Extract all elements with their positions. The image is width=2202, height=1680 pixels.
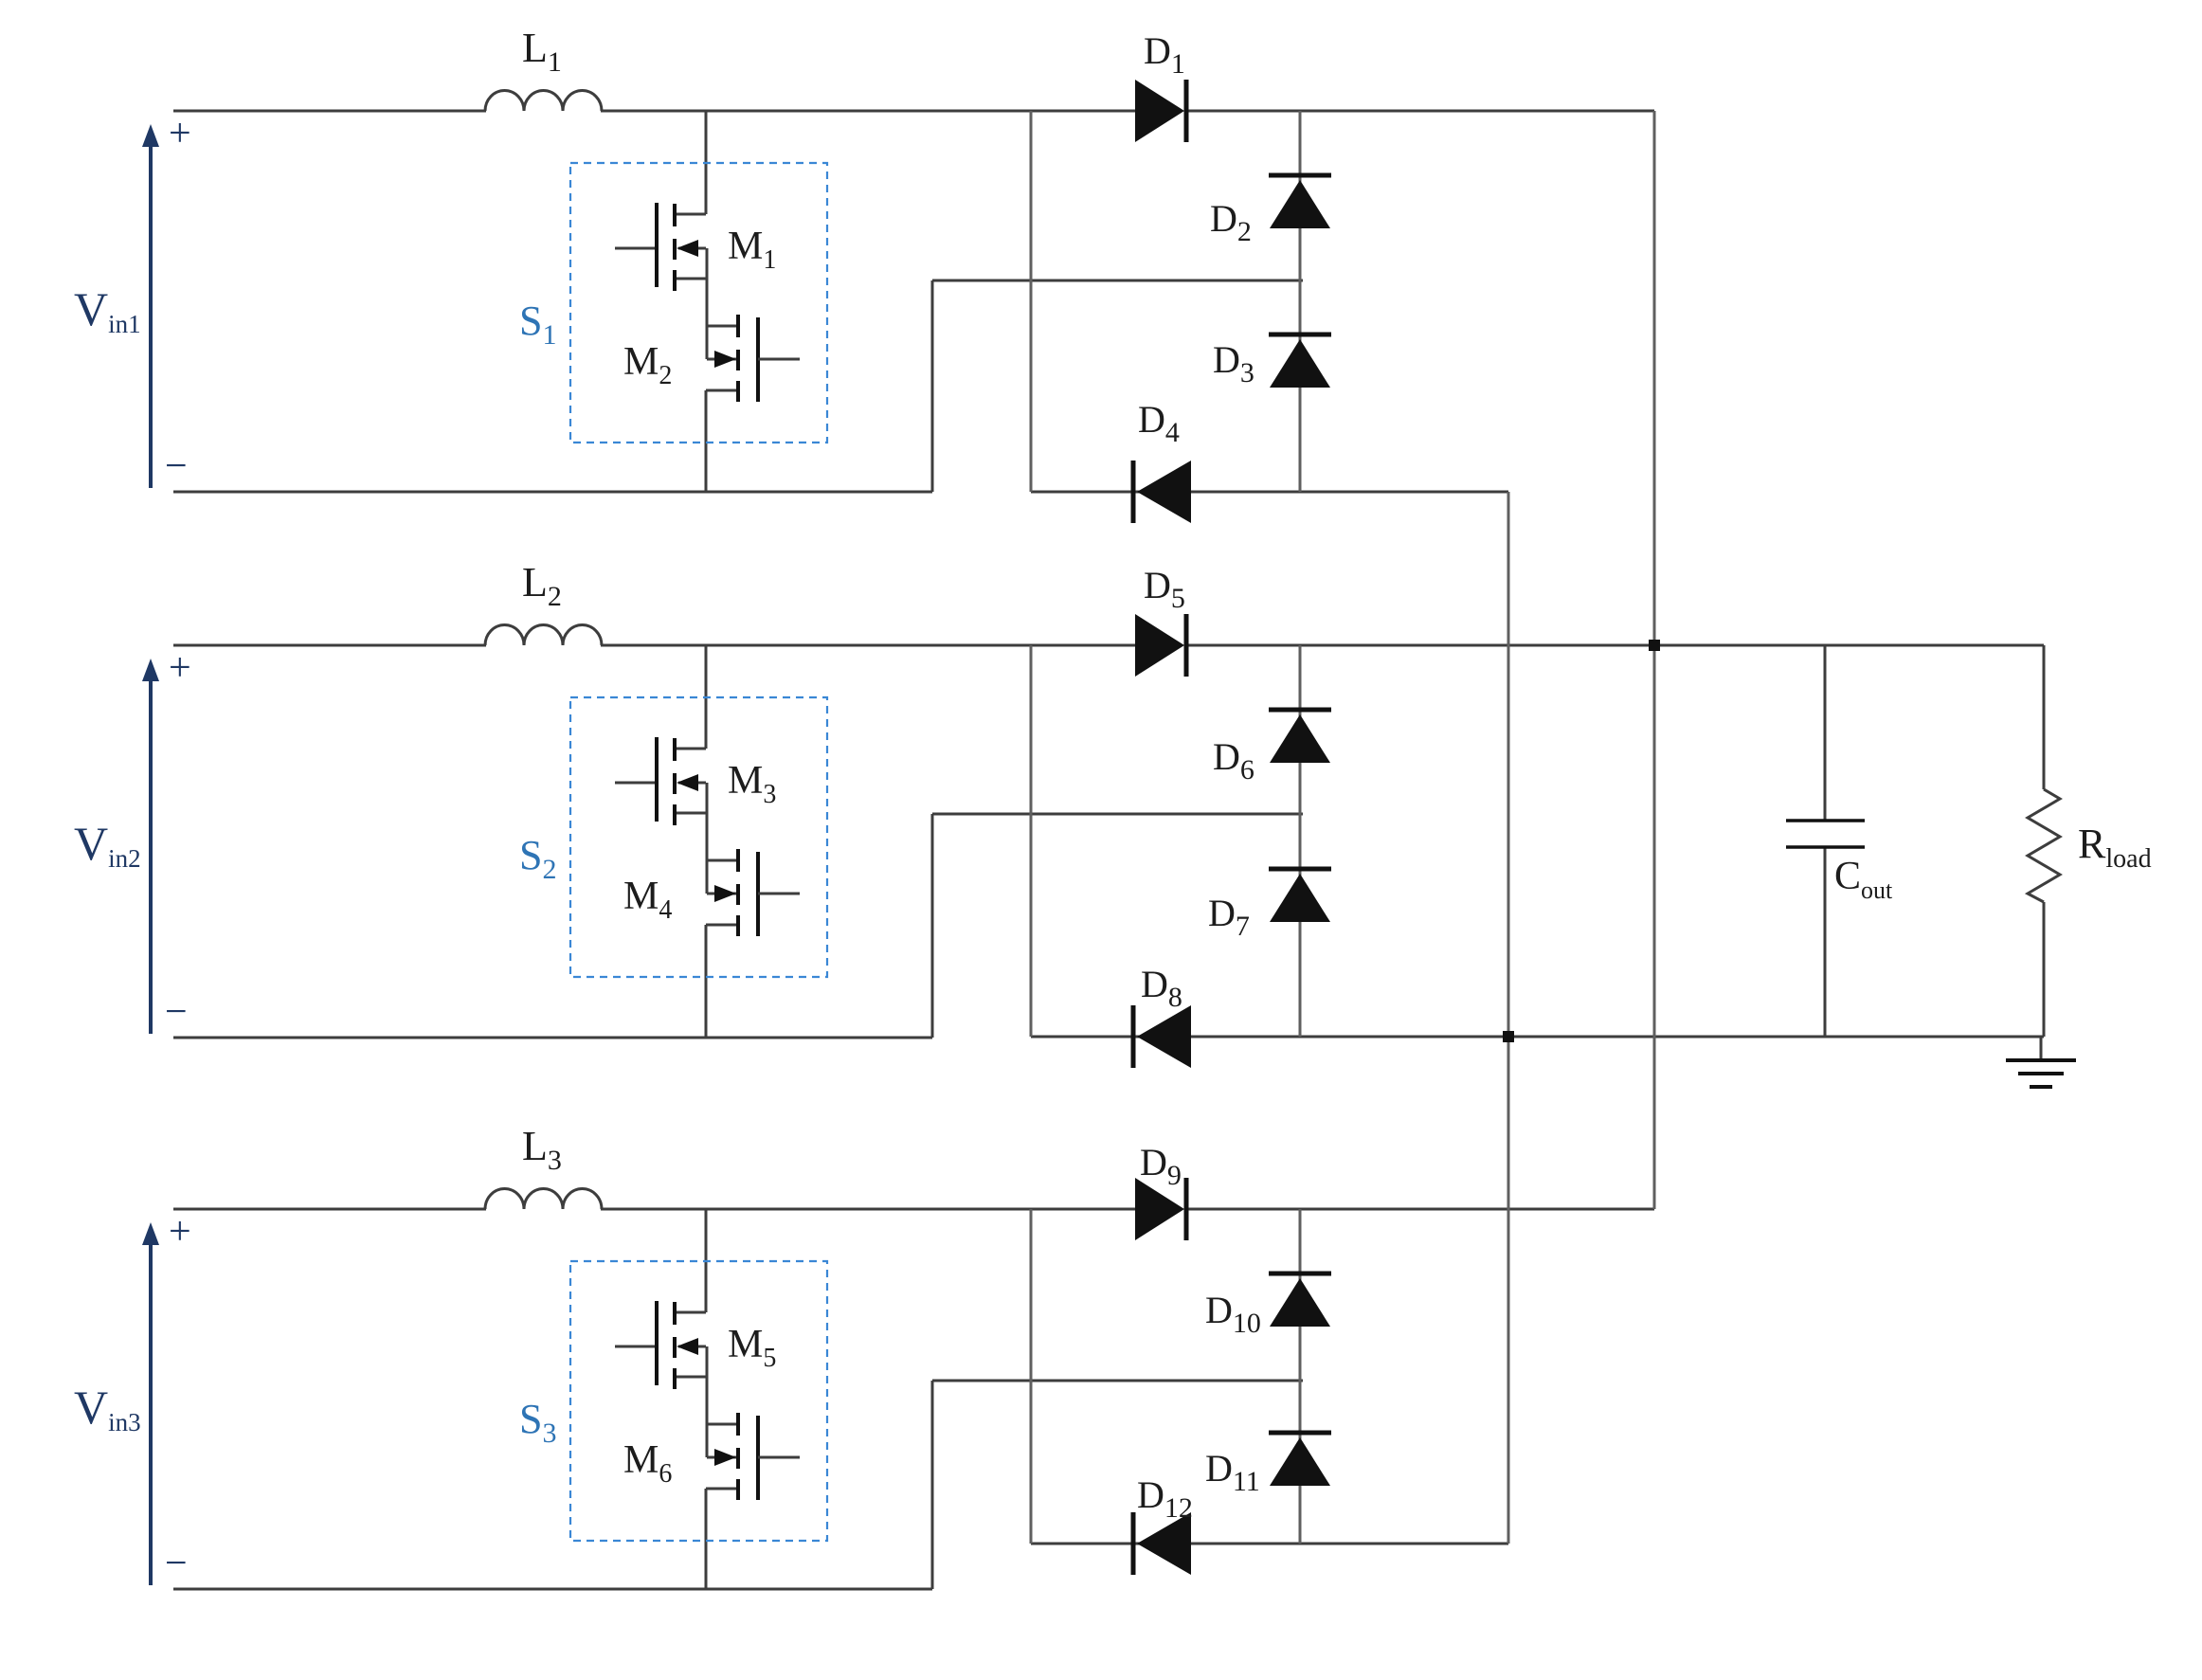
svg-text:+: +: [169, 112, 191, 155]
svg-text:+: +: [169, 646, 191, 690]
svg-text:+: +: [169, 1210, 191, 1254]
svg-text:−: −: [165, 444, 188, 488]
svg-text:−: −: [165, 1542, 188, 1585]
svg-text:−: −: [165, 990, 188, 1034]
